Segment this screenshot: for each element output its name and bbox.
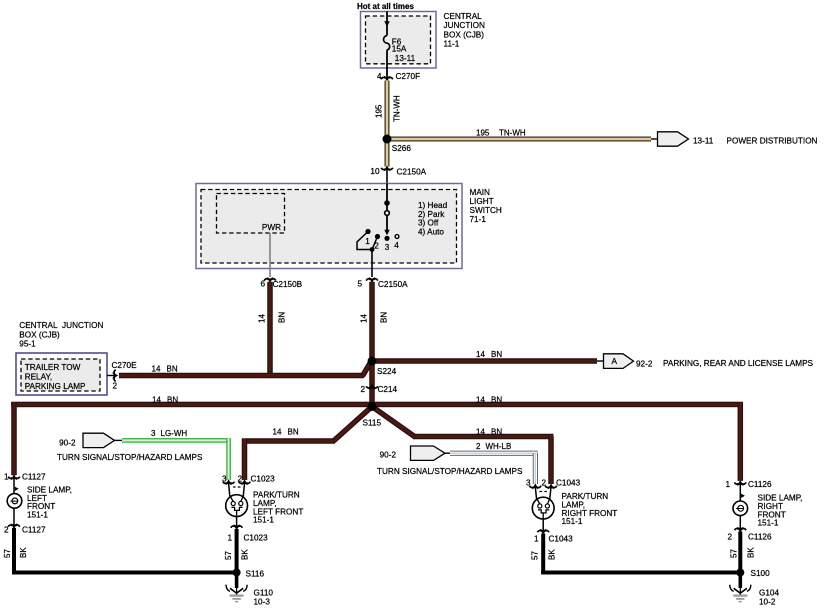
svg-text:13-11: 13-11 bbox=[395, 54, 416, 63]
svg-text:SWITCH: SWITCH bbox=[470, 206, 502, 215]
wire 14 BN from S224 to parking rear license lamps bbox=[372, 358, 597, 364]
wire 3 LG-WH to park turn lamp left bbox=[122, 438, 231, 443]
park turn lamp right front bulb bbox=[535, 487, 536, 499]
connector C1126 pin 2 bbox=[739, 516, 741, 530]
splice S266 junction dot bbox=[383, 135, 392, 144]
svg-text:5: 5 bbox=[357, 280, 362, 289]
connector tie dashes right bbox=[540, 491, 548, 493]
svg-text:151-1: 151-1 bbox=[253, 516, 274, 525]
svg-text:BN: BN bbox=[491, 428, 502, 437]
connector C1043 pin 1 bbox=[542, 519, 544, 532]
svg-text:JUNCTION: JUNCTION bbox=[444, 21, 485, 30]
svg-text:G104: G104 bbox=[759, 588, 779, 597]
svg-text:A: A bbox=[611, 356, 617, 366]
ground G104 bbox=[739, 574, 743, 588]
svg-text:151-1: 151-1 bbox=[758, 519, 779, 528]
svg-text:MAIN: MAIN bbox=[470, 188, 491, 197]
wire 14 BN from C270E to S224 bbox=[119, 373, 364, 379]
svg-text:95-1: 95-1 bbox=[19, 340, 36, 349]
svg-text:13-11: 13-11 bbox=[693, 137, 714, 146]
svg-text:10-2: 10-2 bbox=[759, 598, 776, 607]
wire from PWR block to pin 6 bbox=[269, 233, 271, 277]
splice S115 junction dot bbox=[368, 402, 377, 411]
splice S116 bbox=[233, 569, 241, 577]
svg-text:1: 1 bbox=[534, 535, 539, 544]
svg-text:1) Head: 1) Head bbox=[418, 201, 448, 210]
svg-text:2) Park: 2) Park bbox=[418, 210, 445, 219]
svg-text:C1023: C1023 bbox=[244, 534, 269, 543]
svg-text:C1043: C1043 bbox=[556, 479, 581, 488]
connector arrow to power distribution 13-11 bbox=[651, 138, 658, 140]
switch contact 2 bbox=[375, 234, 380, 239]
park turn lamp left front bulb bbox=[229, 483, 230, 496]
central junction box CJB 11-1 outline bbox=[361, 12, 437, 69]
svg-text:CENTRAL: CENTRAL bbox=[444, 12, 483, 21]
side lamp left front bulb bbox=[7, 494, 22, 509]
wire 14 BN from S224 to C214 bbox=[369, 363, 375, 407]
svg-text:4) Auto: 4) Auto bbox=[418, 227, 444, 236]
svg-text:S224: S224 bbox=[377, 367, 397, 376]
current arrow at side lamp right bbox=[741, 494, 745, 498]
open contact dot on switch wire bbox=[385, 211, 390, 216]
svg-text:PARKING, REAR AND LICENSE LAMP: PARKING, REAR AND LICENSE LAMPS bbox=[663, 359, 814, 368]
svg-text:C1043: C1043 bbox=[549, 535, 574, 544]
svg-text:1: 1 bbox=[227, 534, 232, 543]
svg-text:BK: BK bbox=[19, 547, 28, 558]
svg-text:TRAILER TOW: TRAILER TOW bbox=[25, 363, 81, 372]
svg-text:15A: 15A bbox=[392, 45, 407, 54]
switch contact 1 bbox=[365, 229, 370, 234]
trailer tow relay parking lamp box bbox=[16, 353, 107, 395]
connector C1023 pin 1 bbox=[236, 516, 238, 527]
svg-text:57: 57 bbox=[531, 551, 540, 560]
svg-text:92-2: 92-2 bbox=[636, 359, 653, 368]
svg-text:BN: BN bbox=[379, 312, 388, 323]
connector C1127 pin 2 bbox=[13, 508, 15, 526]
svg-text:TN-WH: TN-WH bbox=[499, 129, 526, 138]
wire 195 TN-WH horizontal from S266 to power distribution bbox=[389, 137, 651, 142]
PWR internal block bbox=[217, 194, 285, 234]
connector tie dashes bbox=[233, 486, 241, 488]
svg-text:BN: BN bbox=[167, 396, 178, 405]
svg-text:S266: S266 bbox=[392, 144, 412, 153]
svg-text:BN: BN bbox=[491, 350, 502, 359]
svg-text:3) Off: 3) Off bbox=[418, 219, 439, 228]
splice S100 bbox=[736, 569, 744, 577]
svg-text:2: 2 bbox=[4, 526, 9, 535]
svg-text:TN-WH: TN-WH bbox=[393, 95, 402, 122]
main light switch box outline 71-1 bbox=[196, 184, 462, 269]
svg-text:PWR: PWR bbox=[262, 223, 281, 232]
wire 14 BN left drop to side lamp left bbox=[11, 402, 17, 475]
svg-text:TURN SIGNAL/STOP/HAZARD LAMPS: TURN SIGNAL/STOP/HAZARD LAMPS bbox=[377, 467, 523, 476]
fuse F6 15A 13-11 bbox=[384, 36, 390, 51]
svg-text:S116: S116 bbox=[246, 570, 265, 579]
connector C270E pin 2 bbox=[107, 375, 115, 377]
svg-text:2: 2 bbox=[360, 385, 365, 394]
svg-text:2: 2 bbox=[113, 382, 118, 391]
svg-text:151-1: 151-1 bbox=[27, 511, 48, 520]
wire 57 BK from side lamp right to S100 bbox=[738, 532, 742, 575]
current arrow at side lamp left bbox=[15, 487, 19, 491]
svg-text:195: 195 bbox=[476, 129, 490, 138]
wire 14 BN branch S115 to park turn lamp left bbox=[334, 407, 373, 442]
svg-text:3: 3 bbox=[385, 243, 390, 252]
wire 14 BN from pin 6 down bbox=[267, 282, 273, 378]
wire 57 BK from side lamp left to S116 bbox=[12, 528, 16, 575]
svg-text:BOX (CJB): BOX (CJB) bbox=[444, 30, 485, 39]
junction dot on switch wire bbox=[384, 200, 390, 206]
svg-text:BK: BK bbox=[241, 549, 250, 560]
svg-text:BN: BN bbox=[167, 365, 178, 374]
svg-text:4: 4 bbox=[394, 241, 399, 250]
svg-text:57: 57 bbox=[3, 549, 12, 558]
svg-text:C270E: C270E bbox=[112, 361, 138, 370]
ground G110 bbox=[235, 574, 239, 588]
splice S224 junction dot bbox=[368, 357, 377, 366]
svg-text:C270F: C270F bbox=[396, 72, 421, 81]
connector arrow A to parking rear and license lamps 92-2 bbox=[604, 354, 634, 369]
svg-text:14: 14 bbox=[476, 350, 485, 359]
svg-text:C1127: C1127 bbox=[22, 473, 46, 482]
wire from hot feed into fuse bbox=[386, 12, 388, 36]
svg-text:POWER DISTRIBUTION: POWER DISTRIBUTION bbox=[727, 137, 818, 146]
svg-text:4: 4 bbox=[377, 72, 382, 81]
svg-text:BN: BN bbox=[277, 312, 286, 323]
svg-text:PARKING LAMP: PARKING LAMP bbox=[25, 382, 86, 391]
svg-text:C2150A: C2150A bbox=[397, 168, 427, 177]
svg-text:10: 10 bbox=[370, 167, 380, 176]
svg-text:14: 14 bbox=[476, 428, 485, 437]
wire 195 TN-WH vertical from C270F to S266 bbox=[385, 81, 390, 140]
svg-text:90-2: 90-2 bbox=[59, 438, 76, 447]
svg-text:RELAY,: RELAY, bbox=[25, 373, 52, 382]
svg-text:S115: S115 bbox=[363, 419, 382, 428]
svg-text:C1126: C1126 bbox=[748, 480, 772, 489]
svg-text:14: 14 bbox=[152, 396, 161, 405]
svg-text:14: 14 bbox=[258, 314, 267, 323]
switch contact 3 bbox=[384, 236, 389, 241]
svg-text:57: 57 bbox=[224, 551, 233, 560]
svg-text:151-1: 151-1 bbox=[562, 517, 583, 526]
wire 57 BK from park turn lamp left to S116 bbox=[235, 529, 239, 575]
svg-text:CENTRAL JUNCTION: CENTRAL JUNCTION bbox=[19, 321, 103, 330]
switch contact 4 open bbox=[395, 235, 399, 239]
arrow into contact 3 bbox=[384, 230, 390, 235]
svg-text:BN: BN bbox=[491, 396, 502, 405]
svg-text:BOX (CJB): BOX (CJB) bbox=[19, 330, 60, 339]
svg-text:LG-WH: LG-WH bbox=[161, 429, 188, 438]
switch common wire from pin 10 bbox=[386, 184, 388, 233]
svg-text:C2150B: C2150B bbox=[273, 280, 303, 289]
svg-text:3: 3 bbox=[151, 429, 156, 438]
svg-text:2: 2 bbox=[476, 442, 481, 451]
svg-text:WH-LB: WH-LB bbox=[486, 442, 512, 451]
current arrow on wire bbox=[384, 21, 390, 26]
svg-text:BK: BK bbox=[548, 549, 557, 560]
svg-text:Hot at all times: Hot at all times bbox=[357, 2, 414, 11]
svg-text:LIGHT: LIGHT bbox=[470, 197, 494, 206]
svg-text:C214: C214 bbox=[378, 385, 398, 394]
wire 14 BN from pin 5 down to S224 bbox=[369, 282, 375, 361]
svg-text:14: 14 bbox=[360, 314, 369, 323]
svg-text:71-1: 71-1 bbox=[470, 215, 487, 224]
svg-text:14: 14 bbox=[273, 428, 282, 437]
svg-text:14: 14 bbox=[152, 365, 161, 374]
svg-text:10-3: 10-3 bbox=[254, 598, 271, 607]
wire 57 BK from park turn lamp right to S100 bbox=[541, 534, 545, 575]
svg-text:TURN SIGNAL/STOP/HAZARD LAMPS: TURN SIGNAL/STOP/HAZARD LAMPS bbox=[57, 453, 203, 462]
svg-text:C1127: C1127 bbox=[22, 526, 46, 535]
svg-text:C1126: C1126 bbox=[748, 532, 772, 541]
svg-text:1: 1 bbox=[725, 480, 730, 489]
svg-text:57: 57 bbox=[730, 549, 739, 558]
wire from switch to pin 5 bbox=[371, 250, 373, 278]
wire 14 BN branch S115 to park turn lamp right bbox=[372, 407, 415, 437]
svg-text:2: 2 bbox=[727, 532, 732, 541]
svg-text:14: 14 bbox=[476, 396, 485, 405]
switch arm wiper bbox=[357, 232, 372, 250]
svg-text:1: 1 bbox=[365, 237, 370, 246]
svg-text:11-1: 11-1 bbox=[444, 40, 460, 49]
svg-text:BN: BN bbox=[288, 428, 299, 437]
wire 2 WH-LB to park turn lamp right bbox=[450, 451, 538, 456]
svg-text:6: 6 bbox=[260, 280, 265, 289]
svg-text:C1023: C1023 bbox=[251, 475, 276, 484]
svg-text:S100: S100 bbox=[751, 569, 771, 578]
wire 195 TN-WH from S266 to C2150A pin 10 bbox=[385, 139, 390, 167]
svg-text:G110: G110 bbox=[254, 589, 274, 598]
wire 14 BN right drop to side lamp right bbox=[738, 402, 744, 481]
side lamp right front bulb bbox=[733, 501, 748, 516]
svg-text:BK: BK bbox=[747, 547, 756, 558]
wire 14 BN main horizontal run bbox=[11, 402, 743, 408]
svg-text:195: 195 bbox=[375, 104, 384, 118]
svg-text:C2150A: C2150A bbox=[378, 280, 408, 289]
wire from fuse to connector C270F bbox=[386, 50, 388, 79]
svg-text:90-2: 90-2 bbox=[380, 450, 397, 459]
